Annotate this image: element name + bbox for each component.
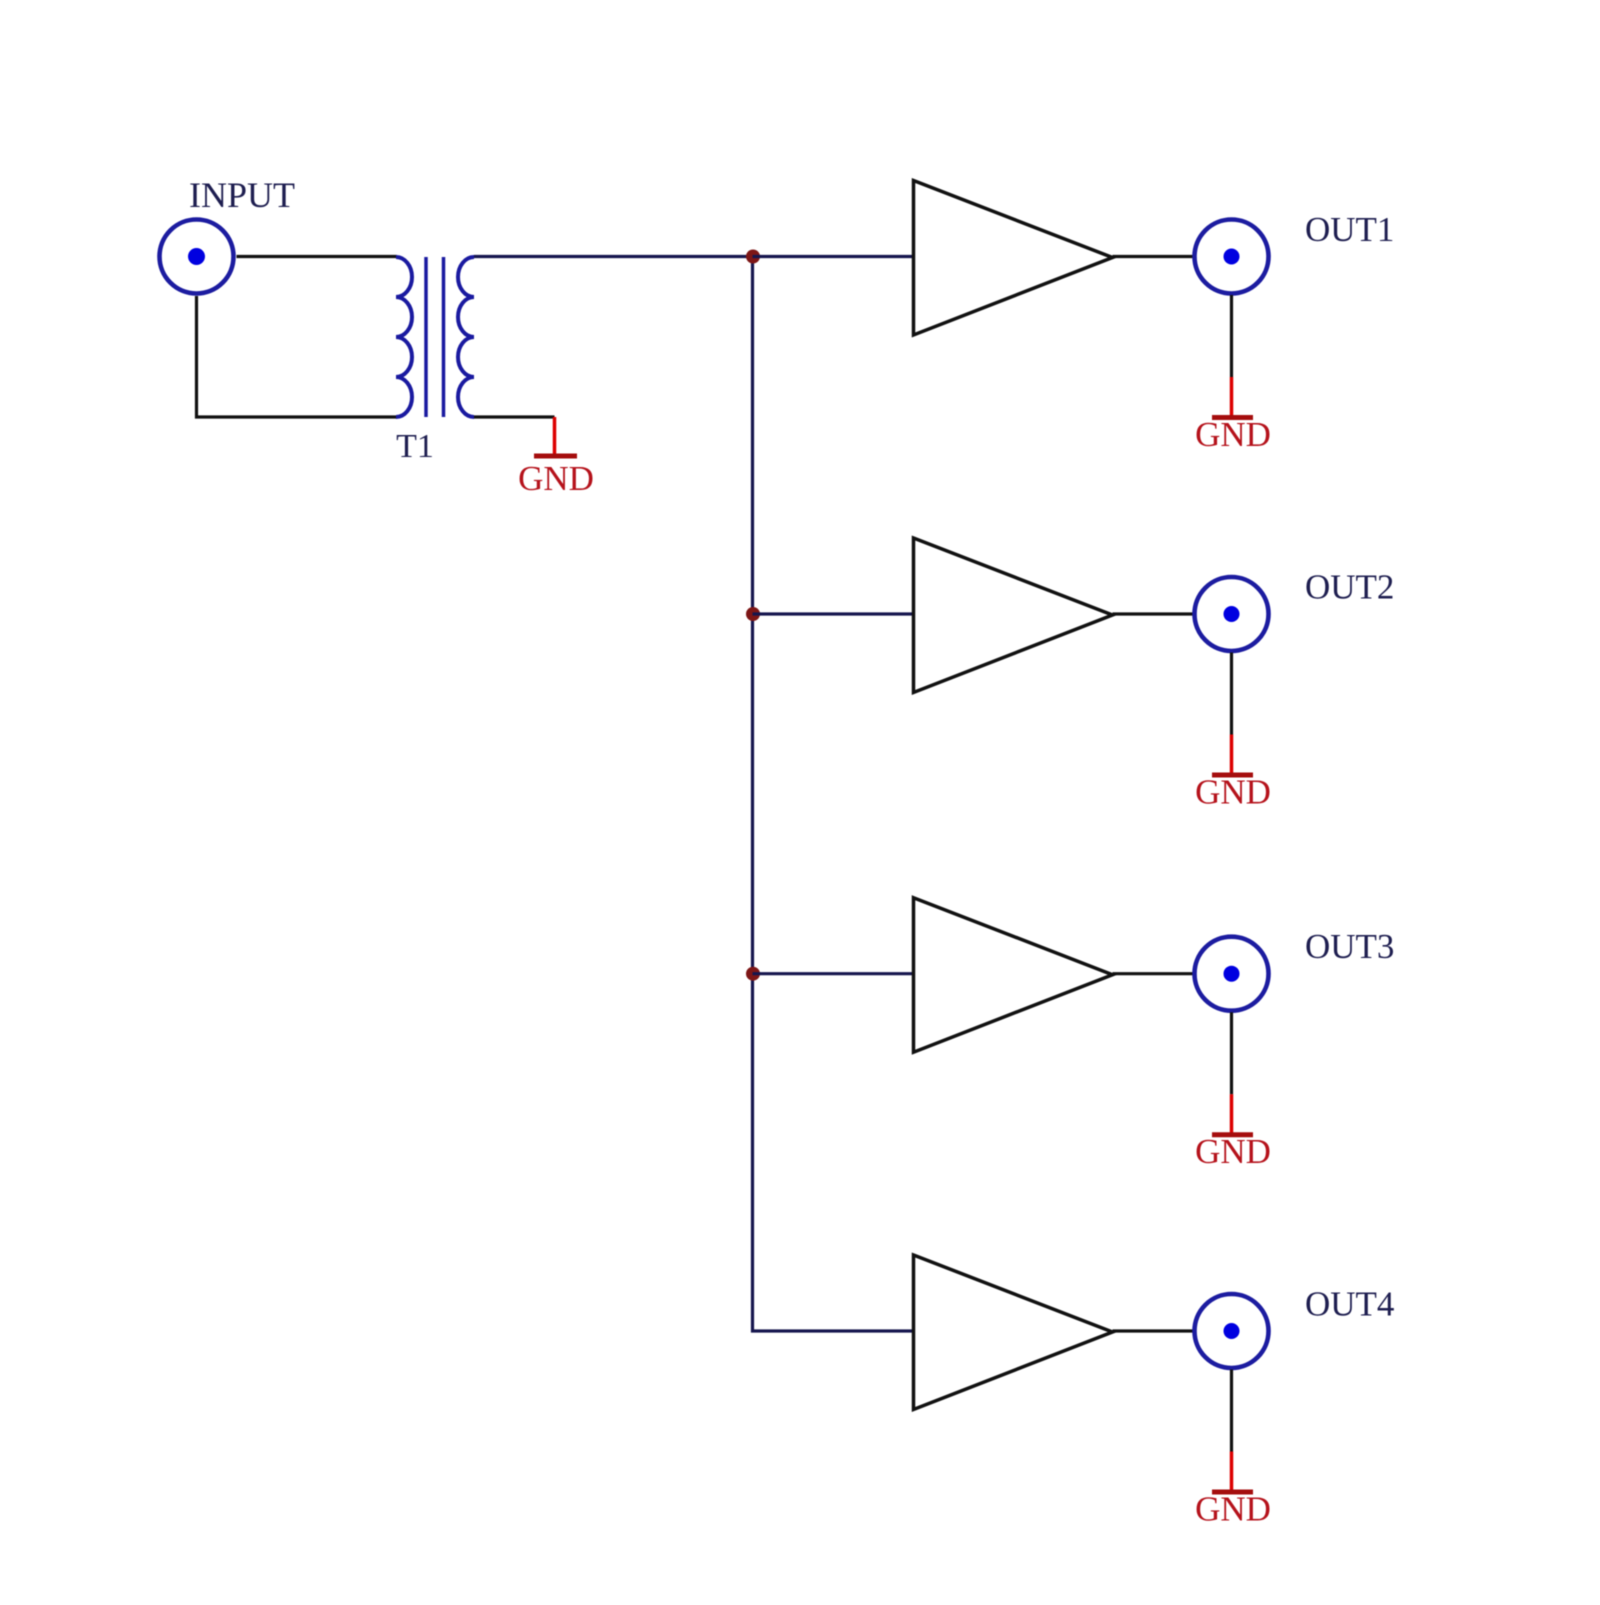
wire INPUT to T1 primary top	[237, 255, 398, 258]
svg-text:GND: GND	[1195, 415, 1271, 454]
amplifier A1	[914, 181, 1113, 336]
svg-text:GND: GND	[518, 459, 594, 498]
amplifier A4	[914, 1255, 1113, 1410]
ground bar at T1	[534, 454, 577, 459]
connector J1 INPUT jack	[160, 220, 234, 294]
svg-text:OUT1: OUT1	[1305, 210, 1394, 249]
transformer T1 primary winding	[396, 257, 412, 417]
wire T1 secondary bottom to ground	[474, 415, 555, 418]
svg-text:GND: GND	[1195, 1490, 1271, 1529]
amplifier A3	[914, 898, 1113, 1052]
wire INPUT bottom loop	[197, 296, 398, 417]
wire bus to amp3	[753, 972, 914, 975]
svg-text:T1: T1	[396, 428, 434, 465]
wire amp2 to OUT2	[1113, 612, 1194, 615]
wire vertical bus	[753, 257, 914, 1332]
ground bar OUT4	[1212, 1490, 1253, 1495]
svg-text:OUT4: OUT4	[1305, 1285, 1394, 1324]
wire bus to amp2	[753, 612, 914, 615]
wire amp4 to OUT4	[1113, 1329, 1194, 1332]
wire OUT1 to ground	[1230, 295, 1233, 377]
svg-text:INPUT: INPUT	[189, 175, 295, 215]
connector OUT2 jack	[1195, 577, 1269, 651]
ground stub OUT2	[1230, 735, 1234, 776]
connector OUT1 jack	[1195, 220, 1269, 294]
transformer T1 core line 1	[424, 257, 428, 417]
connector OUT4 jack	[1195, 1294, 1269, 1368]
wire bus to amp1	[753, 255, 914, 258]
amplifier A2	[914, 538, 1113, 693]
wire T1 secondary top to bus junction	[474, 255, 753, 258]
svg-text:GND: GND	[1195, 773, 1271, 812]
junction node row2	[746, 607, 760, 621]
ground stub at T1	[553, 417, 557, 456]
ground stub OUT1	[1230, 377, 1234, 418]
wire OUT2 to ground	[1230, 653, 1233, 735]
junction node row3	[746, 967, 760, 981]
junction node row1	[746, 250, 760, 264]
ground bar OUT3	[1212, 1132, 1253, 1137]
transformer T1 core line 2	[442, 257, 446, 417]
svg-text:OUT2: OUT2	[1305, 568, 1394, 607]
ground bar OUT1	[1212, 415, 1253, 420]
svg-text:GND: GND	[1195, 1132, 1271, 1171]
svg-text:OUT3: OUT3	[1305, 927, 1394, 966]
wire OUT3 to ground	[1230, 1012, 1233, 1094]
transformer T1 secondary winding	[458, 257, 474, 417]
wire OUT4 to ground	[1230, 1370, 1233, 1452]
wire amp3 to OUT3	[1113, 972, 1194, 975]
wire amp1 to OUT1	[1113, 255, 1194, 258]
ground stub OUT3	[1230, 1094, 1234, 1135]
ground stub OUT4	[1230, 1452, 1234, 1493]
connector OUT3 jack	[1195, 937, 1269, 1011]
ground bar OUT2	[1212, 773, 1253, 778]
